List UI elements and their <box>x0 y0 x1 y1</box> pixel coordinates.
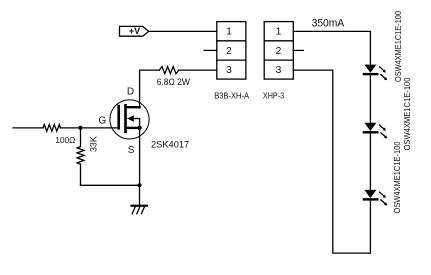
LED D1 <box>364 65 387 81</box>
svg-text:+V: +V <box>129 26 140 36</box>
pin 2 stub J2 <box>293 49 303 51</box>
power flag +V <box>120 26 149 36</box>
svg-text:100Ω: 100Ω <box>55 135 75 145</box>
wire to ground <box>139 185 141 205</box>
transistor Q1 2SK4017 <box>110 100 149 139</box>
svg-text:3: 3 <box>226 65 232 76</box>
wire D3 to bottom <box>369 199 371 253</box>
svg-text:OSW4XME1C1E-100: OSW4XME1C1E-100 <box>392 141 402 213</box>
wire Q1 source down <box>139 128 141 185</box>
svg-text:2SK4017: 2SK4017 <box>151 139 189 149</box>
connector J1 B3B-XH-A body <box>217 22 246 80</box>
svg-text:S: S <box>128 145 135 156</box>
junction node source <box>137 183 141 187</box>
wire J2 pin1 to LED chain <box>293 31 370 64</box>
svg-text:G: G <box>98 115 106 126</box>
svg-text:D: D <box>127 86 134 97</box>
svg-text:6.8Ω 2W: 6.8Ω 2W <box>157 77 190 87</box>
svg-text:350mA: 350mA <box>312 18 345 30</box>
connector J2 XHP-3 body <box>264 22 293 80</box>
junction node gate <box>78 126 82 130</box>
svg-text:2: 2 <box>276 46 282 57</box>
wire +V to J1 pin 1 <box>149 30 217 32</box>
pin 2 stub J1 <box>204 49 217 51</box>
wire R2 to Q1 gate <box>81 127 118 129</box>
svg-text:33K: 33K <box>88 135 98 152</box>
svg-text:2: 2 <box>226 46 232 57</box>
resistor R1 6.8ohm 2W <box>140 67 217 74</box>
wire D1 to D2 <box>369 74 371 123</box>
wire input left <box>13 127 43 129</box>
svg-text:1: 1 <box>276 27 282 38</box>
svg-text:XHP-3: XHP-3 <box>263 91 284 101</box>
wire R3 to source node <box>81 184 140 186</box>
wire junction to R3 <box>80 128 82 147</box>
resistor R2 100ohm <box>43 125 81 132</box>
LED D2 <box>364 123 387 139</box>
wire R1 to Q1 drain <box>139 70 141 107</box>
svg-text:B3B-XH-A: B3B-XH-A <box>214 91 249 101</box>
wire D2 to D3 <box>369 132 371 190</box>
ground <box>132 206 148 214</box>
wire J2 pin3 return <box>293 70 370 253</box>
svg-text:OSW4XME1C1E-100: OSW4XME1C1E-100 <box>393 11 403 82</box>
LED D3 <box>364 190 387 206</box>
svg-text:OSW4XME1C1E-100: OSW4XME1C1E-100 <box>402 77 412 150</box>
svg-text:1: 1 <box>226 27 232 38</box>
svg-text:3: 3 <box>276 65 282 76</box>
resistor R3 33K <box>77 147 84 186</box>
